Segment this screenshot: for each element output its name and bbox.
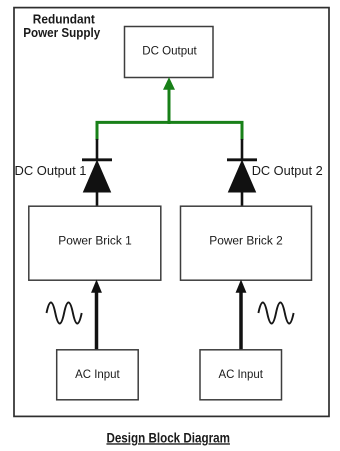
wire diode2 to brick2	[241, 192, 244, 207]
wire diode1 anode	[96, 139, 99, 160]
svg-text:AC Input: AC Input	[75, 369, 120, 381]
wire diode1 to brick1	[96, 192, 99, 207]
svg-text:DC Output 2: DC Output 2	[252, 163, 323, 178]
AC sine symbol right	[258, 303, 293, 324]
arrow AC1 to brick1	[92, 281, 101, 350]
wire green drop right	[241, 121, 244, 140]
svg-text:AC Input: AC Input	[218, 369, 263, 381]
svg-text:Design Block Diagram: Design Block Diagram	[106, 430, 230, 445]
wire green arrow to DC Output	[164, 78, 174, 124]
svg-text:DC Output: DC Output	[142, 45, 197, 57]
block Power Brick 2	[181, 206, 312, 280]
wire green bus horizontal	[96, 121, 244, 124]
svg-text:Power Brick 1: Power Brick 1	[58, 236, 132, 248]
diode D1	[82, 160, 112, 192]
svg-text:Power Supply: Power Supply	[23, 25, 101, 40]
block Power Brick 1	[29, 206, 161, 280]
block AC Input 2	[200, 350, 282, 400]
wire diode2 anode	[241, 139, 244, 160]
svg-text:Power Brick 2: Power Brick 2	[209, 235, 283, 247]
svg-text:DC Output 1: DC Output 1	[15, 163, 87, 178]
title "Redundant Power Supply"	[23, 11, 101, 39]
AC sine symbol left	[47, 303, 82, 324]
diode D2	[227, 160, 257, 192]
wire green drop left	[96, 121, 99, 140]
arrow AC2 to brick2	[236, 281, 245, 350]
block AC Input 1	[57, 350, 139, 400]
block DC Output	[125, 27, 214, 78]
